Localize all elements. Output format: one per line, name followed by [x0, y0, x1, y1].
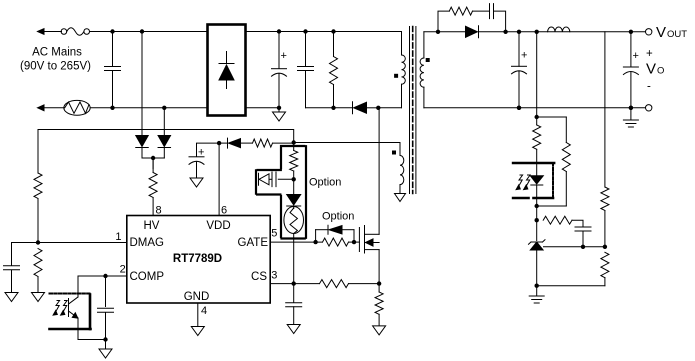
svg-text:HV: HV	[144, 220, 160, 232]
ground (VDD cap)	[190, 178, 203, 187]
CS filter capacitor	[286, 284, 302, 325]
svg-text:O: O	[657, 66, 664, 77]
gate resistor	[323, 238, 360, 246]
svg-text:+: +	[198, 147, 204, 159]
optocoupler LED	[530, 163, 543, 207]
AC line arrow (top)	[38, 29, 62, 35]
COMP capacitor	[98, 276, 114, 342]
wire aux winding to VDD node	[294, 142, 400, 144]
svg-text:4: 4	[201, 305, 207, 317]
wire bottom AC to bridge	[90, 107, 207, 109]
VDD diode	[217, 138, 253, 148]
wire CS pin 3	[270, 281, 319, 285]
clamp diode	[353, 102, 379, 114]
X capacitor	[105, 29, 121, 110]
CS resistor	[320, 280, 380, 288]
DMAG divider lower resistor	[34, 249, 42, 293]
wire top AC to bridge	[90, 31, 208, 33]
ground (CS cap)	[287, 325, 300, 334]
svg-text:1: 1	[115, 231, 121, 243]
option clamp resistor	[290, 143, 298, 195]
pin 5 label	[271, 228, 277, 240]
svg-text:OUT: OUT	[667, 29, 687, 40]
svg-text:+: +	[281, 50, 287, 62]
pin 3 label	[271, 270, 277, 282]
wire clamp bottom	[306, 107, 353, 109]
bulk capacitor	[246, 32, 287, 111]
svg-text:6: 6	[221, 205, 227, 217]
wire option clamp to CS	[293, 234, 295, 284]
svg-text:CS: CS	[251, 271, 267, 283]
HV resistor	[149, 158, 157, 216]
secondary snubber resistor	[438, 7, 489, 32]
wire COMP network bottom	[78, 339, 106, 341]
startup diode (from N)	[158, 106, 171, 158]
DMAG filter capacitor	[4, 243, 20, 293]
VOUT terminal	[646, 29, 652, 35]
transformer primary	[394, 32, 405, 108]
opto LED series resistor	[533, 117, 541, 163]
wire LED to TL431	[535, 206, 539, 222]
bridge rectifier	[208, 25, 246, 116]
startup diode (from L)	[136, 29, 149, 158]
wire MOSFET source	[377, 250, 381, 286]
ground (IC)	[191, 327, 204, 336]
AC line arrow (bottom)	[38, 105, 65, 111]
sense resistor	[375, 284, 383, 326]
svg-text:2: 2	[120, 264, 126, 276]
svg-text:+: +	[521, 50, 527, 62]
svg-text:AC Mains: AC Mains	[32, 47, 82, 59]
output capacitor 1	[512, 32, 528, 110]
svg-text:GATE: GATE	[238, 237, 269, 249]
ground (output)	[623, 108, 638, 127]
pin 1 label	[115, 231, 121, 243]
wire VDD pin 6	[218, 143, 220, 215]
optocoupler LED light arrows	[516, 175, 530, 190]
wire TL431 ref	[544, 245, 608, 249]
ground (bridge)	[273, 108, 286, 121]
wire GATE pin 5	[270, 240, 322, 244]
pin 4 label	[201, 305, 207, 317]
MOSFET	[359, 226, 379, 254]
clamp capacitor	[298, 32, 314, 108]
option clamp suppressor	[284, 207, 304, 234]
svg-text:V: V	[656, 24, 666, 41]
thermistor	[64, 100, 90, 115]
fuse	[61, 28, 89, 36]
output capacitor 2	[623, 32, 639, 110]
optocoupler phototransistor	[69, 276, 79, 340]
VDD capacitor	[189, 143, 219, 178]
feedback divider lower resistor	[601, 252, 609, 285]
IC RT7789D	[127, 216, 270, 304]
svg-text:RT7789D: RT7789D	[173, 253, 222, 265]
ground (DMAG cap)	[5, 293, 18, 302]
output return terminal	[646, 105, 652, 111]
optocoupler LED box	[513, 163, 554, 198]
ground (DMAG divider)	[32, 293, 45, 302]
svg-text:GND: GND	[184, 291, 210, 303]
ground (TL431)	[529, 286, 544, 303]
optocoupler phototransistor box	[50, 294, 91, 330]
svg-text:COMP: COMP	[130, 271, 165, 283]
pin 8 label	[156, 205, 162, 217]
wire MOSFET drain	[378, 108, 380, 235]
svg-text:+: +	[646, 48, 653, 60]
wire secondary to rectifier	[424, 30, 467, 34]
feedback divider upper resistor	[601, 32, 609, 247]
compensation capacitor	[575, 227, 591, 249]
svg-text:8: 8	[156, 205, 162, 217]
Option label (gate diode)	[322, 211, 354, 223]
svg-text:-: -	[647, 81, 651, 93]
pin 6 label	[221, 205, 227, 217]
ground (COMP)	[99, 340, 112, 359]
transformer secondary	[420, 32, 430, 108]
svg-text:5: 5	[271, 228, 277, 240]
shunt regulator TL431	[529, 220, 546, 288]
svg-text:Option: Option	[309, 177, 341, 189]
ground (aux winding)	[395, 194, 406, 202]
VDD resistor	[253, 139, 294, 147]
wire DC+ rail	[246, 29, 402, 33]
transformer auxiliary winding	[392, 143, 404, 194]
pin 2 label	[120, 264, 126, 276]
secondary rectifier diode	[466, 26, 649, 38]
svg-text:+: +	[633, 50, 639, 62]
clamp resistor	[330, 32, 338, 111]
gate option diode	[316, 225, 354, 242]
svg-text:3: 3	[271, 270, 277, 282]
wire COMP pin 2	[78, 274, 127, 278]
Vo labels	[646, 48, 664, 93]
wire feedback top	[537, 116, 567, 118]
wire startup diode join	[142, 156, 164, 169]
ground (sense resistor)	[373, 326, 386, 335]
transformer core	[410, 27, 416, 194]
wire divider bottom	[537, 285, 605, 287]
svg-text:DMAG: DMAG	[130, 237, 165, 249]
wire DMAG pin 1	[12, 242, 127, 244]
compensation resistor	[543, 216, 583, 227]
Option label (clamp)	[309, 177, 341, 189]
svg-text:V: V	[646, 61, 656, 78]
secondary snubber capacitor	[490, 4, 506, 32]
wire GND pin 4	[197, 303, 199, 327]
svg-text:(90V to 265V): (90V to 265V)	[20, 61, 91, 73]
wire aux to DMAG divider	[38, 130, 296, 145]
wire secondary return	[424, 106, 649, 110]
svg-text:VDD: VDD	[206, 220, 230, 232]
wire primary bottom	[376, 106, 401, 110]
AC Mains label	[20, 47, 91, 73]
opto LED bias resistor	[535, 117, 571, 208]
wire VOUT to feedback	[535, 32, 539, 119]
optocoupler light arrows	[53, 301, 67, 316]
svg-text:Option: Option	[322, 211, 354, 223]
option clamp network box	[256, 146, 306, 239]
DMAG divider upper resistor	[34, 130, 42, 245]
output inductor	[548, 27, 570, 32]
VOUT label	[656, 24, 687, 41]
option clamp series diode	[287, 195, 301, 209]
option clamp diode (horizontal branch)	[259, 172, 294, 187]
